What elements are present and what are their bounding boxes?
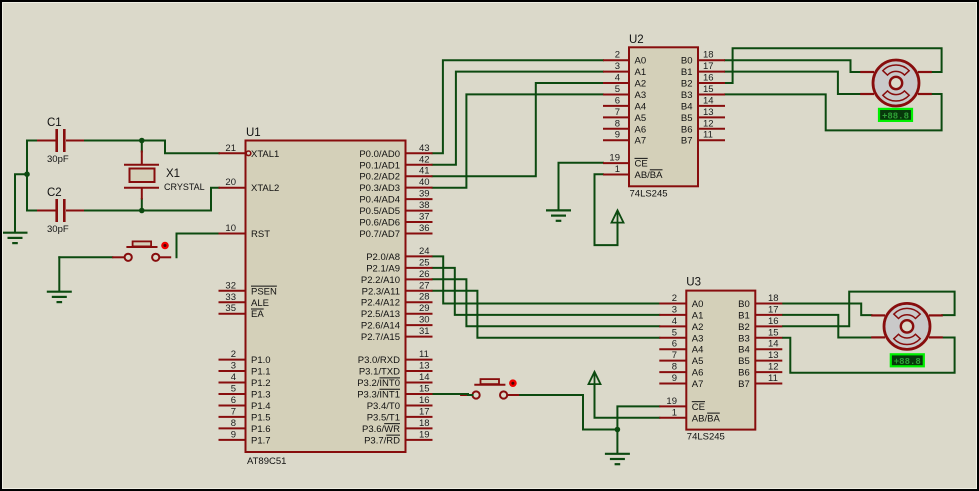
svg-text:30pF: 30pF bbox=[47, 154, 69, 165]
svg-text:CRYSTAL: CRYSTAL bbox=[164, 182, 205, 192]
svg-text:17: 17 bbox=[703, 61, 714, 72]
svg-text:14: 14 bbox=[703, 95, 714, 106]
svg-text:39: 39 bbox=[419, 189, 430, 200]
svg-text:EA: EA bbox=[251, 309, 264, 320]
svg-text:A3: A3 bbox=[692, 333, 704, 344]
svg-text:A0: A0 bbox=[692, 299, 704, 310]
svg-text:B3: B3 bbox=[681, 90, 693, 101]
svg-text:27: 27 bbox=[419, 280, 430, 291]
svg-text:26: 26 bbox=[419, 269, 430, 280]
svg-text:B5: B5 bbox=[681, 113, 693, 124]
svg-text:P3.6/WR: P3.6/WR bbox=[362, 424, 400, 435]
svg-text:6: 6 bbox=[672, 339, 677, 350]
svg-text:P1.2: P1.2 bbox=[251, 378, 271, 389]
svg-text:XTAL1: XTAL1 bbox=[251, 149, 279, 160]
svg-text:B0: B0 bbox=[681, 56, 693, 67]
svg-text:B4: B4 bbox=[738, 345, 750, 356]
svg-text:8: 8 bbox=[672, 362, 677, 373]
svg-text:16: 16 bbox=[768, 316, 779, 327]
svg-text:13: 13 bbox=[703, 107, 714, 118]
svg-text:11: 11 bbox=[703, 130, 713, 141]
svg-text:42: 42 bbox=[419, 154, 430, 165]
svg-text:A6: A6 bbox=[635, 124, 647, 135]
svg-text:5: 5 bbox=[231, 383, 236, 394]
svg-text:A0: A0 bbox=[635, 56, 647, 67]
svg-text:B1: B1 bbox=[738, 310, 750, 321]
svg-text:A2: A2 bbox=[635, 79, 647, 90]
svg-text:35: 35 bbox=[225, 303, 236, 314]
svg-text:P3.5/T1: P3.5/T1 bbox=[367, 412, 400, 423]
svg-text:B0: B0 bbox=[738, 299, 750, 310]
svg-text:P2.6/A14: P2.6/A14 bbox=[361, 321, 400, 332]
svg-text:32: 32 bbox=[225, 280, 236, 291]
svg-text:41: 41 bbox=[419, 166, 430, 177]
svg-text:1: 1 bbox=[672, 407, 677, 418]
svg-text:P1.3: P1.3 bbox=[251, 389, 271, 400]
svg-text:A2: A2 bbox=[692, 322, 704, 333]
svg-text:P0.3/AD3: P0.3/AD3 bbox=[359, 183, 400, 194]
svg-text:P2.4/A12: P2.4/A12 bbox=[361, 298, 400, 309]
svg-text:RST: RST bbox=[251, 229, 270, 240]
svg-text:A1: A1 bbox=[635, 67, 647, 78]
svg-text:P3.3/INT1: P3.3/INT1 bbox=[357, 389, 400, 400]
svg-text:3: 3 bbox=[231, 361, 236, 372]
svg-text:P1.0: P1.0 bbox=[251, 355, 271, 366]
svg-text:CE: CE bbox=[692, 402, 705, 413]
svg-text:P2.1/A9: P2.1/A9 bbox=[366, 263, 400, 274]
svg-text:24: 24 bbox=[419, 246, 430, 257]
svg-text:CE: CE bbox=[635, 159, 648, 170]
svg-text:11: 11 bbox=[768, 373, 778, 384]
svg-text:20: 20 bbox=[225, 177, 236, 188]
svg-text:33: 33 bbox=[225, 292, 236, 303]
svg-text:8: 8 bbox=[231, 418, 236, 429]
svg-text:9: 9 bbox=[672, 373, 677, 384]
svg-text:74LS245: 74LS245 bbox=[630, 188, 668, 199]
svg-text:28: 28 bbox=[419, 292, 430, 303]
svg-text:P0.4/AD4: P0.4/AD4 bbox=[359, 195, 400, 206]
svg-text:XTAL2: XTAL2 bbox=[251, 183, 279, 194]
svg-text:P0.7/AD7: P0.7/AD7 bbox=[359, 229, 400, 240]
svg-text:P1.4: P1.4 bbox=[251, 401, 271, 412]
svg-text:P2.3/A11: P2.3/A11 bbox=[362, 286, 400, 297]
svg-text:30: 30 bbox=[419, 315, 430, 326]
svg-text:15: 15 bbox=[703, 84, 714, 95]
svg-text:9: 9 bbox=[231, 429, 236, 440]
svg-text:B2: B2 bbox=[738, 322, 750, 333]
svg-text:6: 6 bbox=[231, 395, 236, 406]
svg-text:B7: B7 bbox=[738, 379, 750, 390]
svg-text:8: 8 bbox=[615, 118, 620, 129]
svg-text:P1.7: P1.7 bbox=[251, 435, 271, 446]
svg-text:A7: A7 bbox=[692, 379, 704, 390]
svg-text:U3: U3 bbox=[686, 277, 701, 289]
svg-text:9: 9 bbox=[615, 130, 620, 141]
svg-text:17: 17 bbox=[768, 304, 779, 315]
svg-text:P3.4/T0: P3.4/T0 bbox=[367, 401, 400, 412]
svg-text:P0.6/AD6: P0.6/AD6 bbox=[359, 218, 400, 229]
svg-text:ALE: ALE bbox=[251, 298, 269, 309]
svg-text:12: 12 bbox=[768, 362, 779, 373]
svg-text:15: 15 bbox=[419, 383, 430, 394]
svg-text:B5: B5 bbox=[738, 356, 750, 367]
svg-text:7: 7 bbox=[672, 350, 677, 361]
svg-text:PSEN: PSEN bbox=[251, 286, 277, 297]
svg-text:C1: C1 bbox=[47, 117, 62, 129]
svg-text:31: 31 bbox=[419, 326, 430, 337]
svg-text:18: 18 bbox=[703, 50, 714, 61]
svg-text:B6: B6 bbox=[738, 368, 750, 379]
svg-text:P3.0/RXD: P3.0/RXD bbox=[358, 355, 400, 366]
svg-text:38: 38 bbox=[419, 200, 430, 211]
svg-text:C2: C2 bbox=[47, 187, 62, 199]
svg-text:P0.2/AD2: P0.2/AD2 bbox=[359, 172, 400, 183]
svg-text:18: 18 bbox=[419, 418, 430, 429]
svg-text:P2.5/A13: P2.5/A13 bbox=[361, 309, 400, 320]
svg-text:6: 6 bbox=[615, 95, 620, 106]
svg-text:5: 5 bbox=[615, 84, 620, 95]
svg-text:B6: B6 bbox=[681, 124, 693, 135]
svg-text:40: 40 bbox=[419, 177, 430, 188]
svg-text:4: 4 bbox=[615, 73, 620, 84]
svg-text:15: 15 bbox=[768, 327, 779, 338]
svg-text:P2.0/A8: P2.0/A8 bbox=[366, 252, 400, 263]
svg-text:43: 43 bbox=[419, 143, 430, 154]
svg-text:2: 2 bbox=[672, 293, 677, 304]
svg-text:B1: B1 bbox=[681, 67, 693, 78]
svg-text:12: 12 bbox=[703, 118, 714, 129]
svg-text:AB/BA: AB/BA bbox=[692, 413, 721, 424]
svg-text:B2: B2 bbox=[681, 79, 693, 90]
svg-text:B4: B4 bbox=[681, 101, 693, 112]
svg-text:P1.6: P1.6 bbox=[251, 424, 271, 435]
svg-text:AT89C51: AT89C51 bbox=[247, 456, 286, 467]
svg-text:74LS245: 74LS245 bbox=[687, 432, 725, 443]
svg-text:A7: A7 bbox=[635, 136, 647, 147]
svg-text:P0.1/AD1: P0.1/AD1 bbox=[359, 160, 400, 171]
svg-text:P1.1: P1.1 bbox=[251, 367, 271, 378]
svg-text:30pF: 30pF bbox=[47, 224, 69, 235]
svg-text:+88.8: +88.8 bbox=[894, 357, 921, 367]
svg-text:7: 7 bbox=[615, 107, 620, 118]
svg-text:A4: A4 bbox=[692, 345, 704, 356]
svg-text:19: 19 bbox=[609, 153, 620, 164]
svg-text:11: 11 bbox=[419, 349, 429, 360]
svg-text:36: 36 bbox=[419, 223, 430, 234]
svg-text:16: 16 bbox=[419, 395, 430, 406]
svg-text:U2: U2 bbox=[629, 34, 644, 46]
svg-text:3: 3 bbox=[615, 61, 620, 72]
svg-text:4: 4 bbox=[672, 316, 677, 327]
svg-text:X1: X1 bbox=[166, 168, 180, 180]
svg-text:P2.2/A10: P2.2/A10 bbox=[361, 275, 400, 286]
svg-text:5: 5 bbox=[672, 327, 677, 338]
svg-text:P0.5/AD5: P0.5/AD5 bbox=[359, 206, 400, 217]
svg-text:14: 14 bbox=[768, 339, 779, 350]
svg-text:P3.1/TXD: P3.1/TXD bbox=[359, 367, 400, 378]
svg-text:4: 4 bbox=[231, 372, 236, 383]
svg-text:2: 2 bbox=[231, 349, 236, 360]
svg-text:1: 1 bbox=[615, 164, 620, 175]
svg-text:U1: U1 bbox=[246, 127, 261, 139]
svg-text:19: 19 bbox=[419, 429, 430, 440]
svg-text:16: 16 bbox=[703, 73, 714, 84]
svg-text:B7: B7 bbox=[681, 136, 693, 147]
svg-text:7: 7 bbox=[231, 406, 236, 417]
svg-text:37: 37 bbox=[419, 212, 430, 223]
svg-text:19: 19 bbox=[666, 396, 677, 407]
svg-text:17: 17 bbox=[419, 406, 430, 417]
svg-text:13: 13 bbox=[768, 350, 779, 361]
svg-text:B3: B3 bbox=[738, 333, 750, 344]
svg-text:A5: A5 bbox=[692, 356, 704, 367]
svg-text:+88.8: +88.8 bbox=[882, 112, 909, 122]
svg-text:18: 18 bbox=[768, 293, 779, 304]
svg-text:P0.0/AD0: P0.0/AD0 bbox=[359, 149, 400, 160]
svg-text:13: 13 bbox=[419, 361, 430, 372]
svg-text:AB/BA: AB/BA bbox=[635, 170, 664, 181]
svg-text:2: 2 bbox=[615, 50, 620, 61]
svg-text:A5: A5 bbox=[635, 113, 647, 124]
svg-text:25: 25 bbox=[419, 257, 430, 268]
svg-text:A4: A4 bbox=[635, 101, 647, 112]
svg-text:A3: A3 bbox=[635, 90, 647, 101]
svg-text:10: 10 bbox=[225, 223, 236, 234]
svg-text:P1.5: P1.5 bbox=[251, 412, 271, 423]
svg-text:P3.2/INT0: P3.2/INT0 bbox=[357, 378, 400, 389]
svg-text:A6: A6 bbox=[692, 368, 704, 379]
svg-text:A1: A1 bbox=[692, 310, 704, 321]
svg-text:3: 3 bbox=[672, 304, 677, 315]
svg-text:P3.7/RD: P3.7/RD bbox=[364, 435, 400, 446]
svg-text:P2.7/A15: P2.7/A15 bbox=[361, 332, 400, 343]
svg-text:29: 29 bbox=[419, 303, 430, 314]
svg-text:21: 21 bbox=[225, 143, 236, 154]
svg-text:14: 14 bbox=[419, 372, 430, 383]
